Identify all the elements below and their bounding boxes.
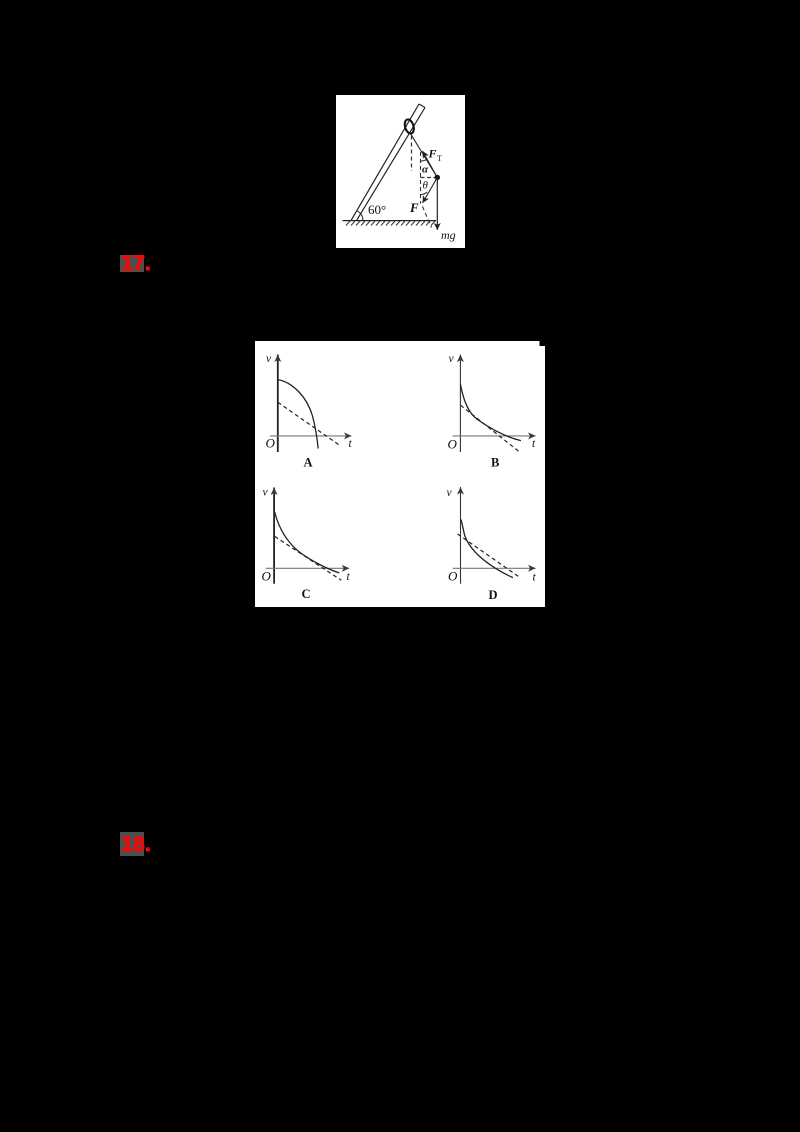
svg-text:B: B	[491, 456, 499, 470]
svg-text:A: A	[304, 456, 313, 470]
svg-text:O: O	[448, 437, 458, 452]
figure box: four v-t graphs	[255, 341, 545, 607]
svg-text:O: O	[266, 436, 276, 451]
svg-text:t: t	[532, 438, 536, 450]
graph B	[448, 353, 537, 470]
D dashed line	[458, 534, 521, 578]
dashed vertical from hook	[411, 136, 413, 172]
C dashed line	[275, 536, 342, 580]
svg-text:O: O	[262, 569, 272, 584]
F arrow from knot down-left	[423, 178, 438, 204]
svg-text:v: v	[447, 487, 453, 499]
svg-text:F: F	[409, 200, 419, 215]
svg-text:F: F	[428, 147, 437, 161]
alpha arc	[421, 160, 427, 162]
chip behind 17	[120, 255, 144, 272]
figure box: incline diagram	[336, 95, 465, 248]
A dashed line	[278, 402, 340, 445]
svg-text:α: α	[422, 164, 429, 176]
C v-axis	[273, 488, 275, 584]
dashed extension of F line	[423, 207, 432, 228]
dashed horizontal to knot	[421, 177, 436, 179]
svg-text:mg: mg	[441, 228, 456, 242]
theta arc	[421, 192, 428, 195]
question number 18	[122, 833, 151, 857]
60 degree arc	[358, 211, 364, 221]
hook ring on rod	[403, 118, 415, 134]
svg-text:O: O	[448, 569, 458, 584]
black notch top-right corner	[540, 341, 546, 346]
B dashed line	[461, 405, 520, 452]
ground line	[343, 220, 437, 222]
D t-axis	[453, 567, 536, 569]
svg-text:v: v	[449, 353, 455, 365]
B t-axis	[453, 435, 536, 437]
A t-axis	[270, 435, 352, 437]
svg-text:C: C	[302, 587, 311, 601]
ground hatching	[346, 221, 435, 226]
dashed vertical through alpha/theta	[420, 152, 422, 204]
svg-text:t: t	[347, 571, 351, 583]
string from hook to knot	[411, 135, 437, 178]
question number 17	[122, 252, 151, 276]
D solid curve	[461, 520, 513, 578]
svg-text:60°: 60°	[368, 202, 386, 217]
svg-text:v: v	[263, 487, 269, 499]
svg-text:t: t	[349, 438, 353, 450]
rod (ladder) two parallel lines with top cap	[351, 104, 419, 221]
chip behind 18	[120, 832, 144, 856]
svg-text:t: t	[533, 572, 537, 584]
D v-axis	[460, 487, 462, 584]
svg-text:D: D	[489, 588, 498, 602]
svg-text:T: T	[437, 154, 442, 163]
knot dot	[435, 175, 440, 180]
graph A	[266, 353, 353, 470]
svg-text:θ: θ	[423, 180, 429, 192]
graph C	[262, 487, 351, 602]
F_T arrow along string	[423, 151, 438, 178]
B v-axis	[459, 355, 461, 453]
A v-axis	[277, 355, 279, 453]
B solid curve	[461, 385, 521, 441]
mg vector from knot downward	[436, 178, 438, 231]
C t-axis	[266, 567, 350, 569]
svg-text:v: v	[266, 353, 272, 365]
A solid curve	[278, 380, 318, 449]
graph D	[447, 487, 537, 602]
C solid curve	[275, 512, 340, 573]
